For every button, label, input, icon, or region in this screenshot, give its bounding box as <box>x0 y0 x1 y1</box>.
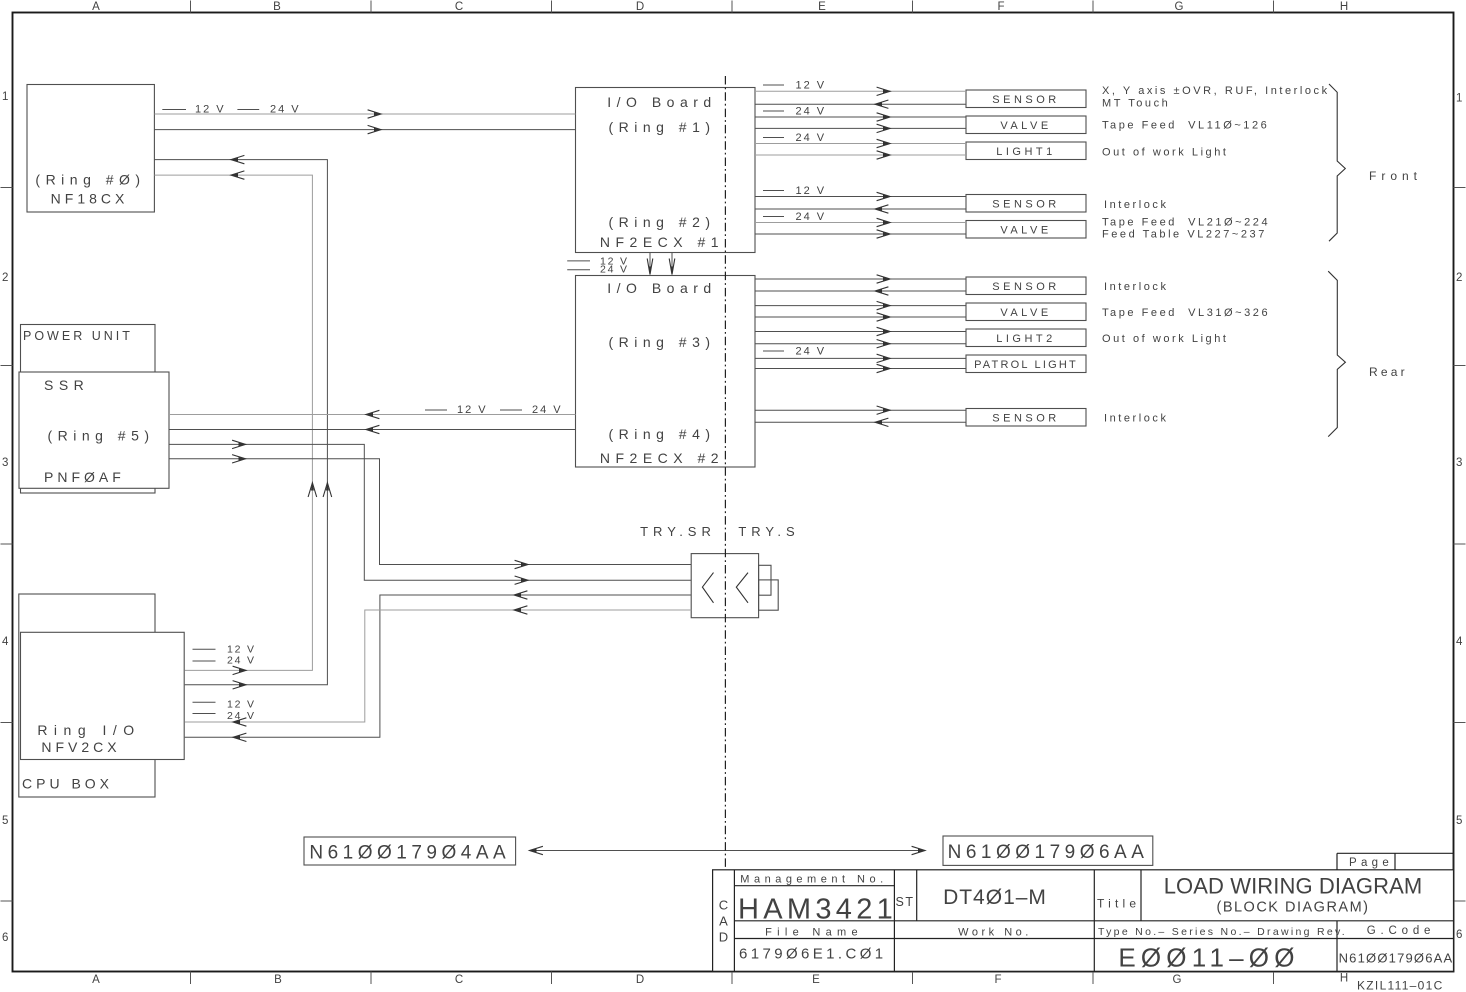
label 12 V (Ring I/O upper group) <box>193 648 216 650</box>
svg-text:EØØ11–ØØ: EØØ11–ØØ <box>1118 943 1299 973</box>
double-headed arrow between part numbers <box>530 850 926 852</box>
box SENSOR 3 <box>966 277 1086 295</box>
wire to PATROL LIGHT (bottom) <box>755 368 966 370</box>
wire to SENSOR2 (out) <box>755 196 966 198</box>
svg-text:C: C <box>455 974 463 986</box>
svg-text:24 V: 24 V <box>796 132 827 144</box>
title block Page strip <box>1337 852 1454 854</box>
wire to LIGHT2 (bottom) <box>755 343 966 345</box>
svg-text:TRY.S: TRY.S <box>738 524 799 539</box>
wire from SENSOR1 (return) <box>755 103 966 105</box>
svg-text:(Ring #2): (Ring #2) <box>608 214 715 230</box>
svg-text:N61ØØ179Ø4AA: N61ØØ179Ø4AA <box>309 843 510 864</box>
svg-text:H: H <box>1340 973 1348 985</box>
svg-text:Tape Feed VL21Ø~224: Tape Feed VL21Ø~224 <box>1102 217 1270 229</box>
svg-text:5: 5 <box>2 815 8 827</box>
svg-text:1: 1 <box>1456 93 1462 105</box>
svg-text:24 V: 24 V <box>796 346 827 358</box>
box LIGHT2 <box>966 329 1086 347</box>
box part number N610017906AA <box>943 836 1153 865</box>
block CPU BOX <box>19 594 155 797</box>
svg-text:SENSOR: SENSOR <box>992 94 1059 106</box>
wire return to NF18CX (upper) with vertical from Ring I/O <box>154 160 327 685</box>
wire to LIGHT1 (bottom) <box>755 154 966 156</box>
wire TRY.SR return upper to Ring I/O (wire D) <box>185 595 692 737</box>
label 12 V (NF18CX out) <box>162 109 186 111</box>
svg-text:Out of work Light: Out of work Light <box>1102 147 1229 159</box>
wire SSR out lower to TRY.SR (wire1) <box>169 459 691 565</box>
title block verticals <box>733 870 735 972</box>
wire NF18CX 24V out to I/O Board #1 <box>154 129 575 131</box>
block SSR (Ring #5) PNF0AF <box>19 372 169 488</box>
svg-text:(Ring #4): (Ring #4) <box>608 426 715 442</box>
box PATROL LIGHT <box>966 355 1086 373</box>
brace Rear <box>1328 271 1345 436</box>
wire to VALVE1 (top) <box>755 116 966 118</box>
wire from SENSOR2 (return) <box>755 208 966 210</box>
svg-text:SENSOR: SENSOR <box>992 198 1059 210</box>
label 12 V (SSR feed) <box>425 409 447 411</box>
block I/O Board NF2ECX #2 <box>576 276 756 468</box>
label 24 V (Ring I/O lower group) <box>193 713 216 715</box>
label 24 V (Ring I/O upper group) <box>193 660 216 662</box>
annotation group1 sensor line1 <box>1102 85 1330 424</box>
label 24 V (group2 valve) <box>763 216 784 218</box>
svg-text:NF2ECX #1: NF2ECX #1 <box>600 234 724 250</box>
wire SSR 24V from I/O Board #2 <box>169 429 576 431</box>
svg-text:PNFØAF: PNFØAF <box>44 469 125 485</box>
svg-text:E: E <box>812 974 820 986</box>
wire to PATROL LIGHT (top) <box>755 357 966 359</box>
svg-text:I/O Board: I/O Board <box>607 280 716 296</box>
svg-text:X, Y axis ±OVR, RUF, Interlock: X, Y axis ±OVR, RUF, Interlock <box>1102 85 1330 97</box>
svg-text:Out of work Light: Out of work Light <box>1102 333 1229 345</box>
svg-text:D: D <box>636 974 644 986</box>
svg-text:LIGHT2: LIGHT2 <box>996 333 1056 345</box>
svg-text:12 V: 12 V <box>457 404 488 416</box>
svg-text:B: B <box>274 974 282 986</box>
svg-text:Interlock: Interlock <box>1104 199 1169 211</box>
svg-text:12 V: 12 V <box>796 80 827 92</box>
frame row ticks left <box>1 188 13 902</box>
connector tab lower <box>759 580 779 610</box>
svg-text:B: B <box>273 1 281 13</box>
svg-text:Interlock: Interlock <box>1104 281 1169 293</box>
svg-text:SENSOR: SENSOR <box>992 281 1059 293</box>
svg-text:Work No.: Work No. <box>958 927 1032 939</box>
svg-text:VALVE: VALVE <box>1000 307 1051 319</box>
svg-text:1: 1 <box>2 91 8 103</box>
inter-board 24V label with double dash <box>567 269 590 271</box>
block NF18CX (Ring #0) <box>27 85 154 213</box>
svg-text:(Ring #3): (Ring #3) <box>608 334 715 350</box>
svg-text:HAM3421: HAM3421 <box>738 894 897 926</box>
svg-text:NF18CX: NF18CX <box>51 191 129 207</box>
svg-text:24 V: 24 V <box>532 404 563 416</box>
svg-text:Tape Feed VL11Ø~126: Tape Feed VL11Ø~126 <box>1102 120 1269 132</box>
svg-text:G.Code: G.Code <box>1367 925 1435 937</box>
frame row ticks right <box>1454 188 1466 902</box>
label 24 V (group3 patrol light) <box>763 350 784 352</box>
wire SSR out upper to TRY.SR (wire2) <box>169 444 691 580</box>
svg-text:VALVE: VALVE <box>1000 224 1051 236</box>
wire from SENSOR4 (return) <box>755 421 966 423</box>
svg-text:C: C <box>719 898 728 913</box>
connector TRY.SR / TRY.S <box>691 554 758 618</box>
svg-text:Interlock: Interlock <box>1104 412 1169 424</box>
box VALVE 3 <box>966 303 1086 321</box>
svg-text:4: 4 <box>2 636 9 648</box>
svg-text:24 V: 24 V <box>270 104 301 116</box>
svg-text:24 V: 24 V <box>600 264 629 276</box>
svg-text:Page: Page <box>1349 857 1393 869</box>
box SENSOR 2 <box>966 195 1086 213</box>
vertical centerline <box>724 76 726 870</box>
svg-text:3: 3 <box>2 457 8 469</box>
box VALVE 1 <box>966 116 1086 134</box>
svg-text:D: D <box>719 930 728 945</box>
svg-text:12 V: 12 V <box>195 104 226 116</box>
svg-text:MT Touch: MT Touch <box>1102 98 1170 110</box>
label 12 V (Ring I/O lower group) <box>193 701 216 703</box>
label 24 V (group1 valve) <box>763 110 784 112</box>
svg-text:24 V: 24 V <box>796 211 827 223</box>
svg-text:NF2ECX #2: NF2ECX #2 <box>600 450 724 466</box>
box VALVE 2 <box>966 221 1086 239</box>
inter-board down arrow 2 <box>671 253 673 274</box>
frame column ticks top <box>191 1 1274 13</box>
svg-text:LOAD WIRING DIAGRAM: LOAD WIRING DIAGRAM <box>1164 874 1423 899</box>
box LIGHT1 <box>966 142 1086 160</box>
svg-text:(BLOCK DIAGRAM): (BLOCK DIAGRAM) <box>1216 900 1369 916</box>
svg-text:D: D <box>636 1 644 13</box>
svg-text:G: G <box>1175 1 1184 13</box>
svg-text:24 V: 24 V <box>227 655 256 667</box>
svg-text:3: 3 <box>1456 457 1462 469</box>
label 12 V (group2 sensor) <box>763 190 784 192</box>
wire TRY.SR return lower to Ring I/O (wire C) <box>185 610 692 722</box>
svg-text:Ring I/O: Ring I/O <box>37 722 140 738</box>
wire to LIGHT2 (top) <box>755 331 966 333</box>
svg-text:PATROL LIGHT: PATROL LIGHT <box>974 359 1078 371</box>
connector chevron right <box>736 573 748 603</box>
svg-text:A: A <box>92 1 100 13</box>
block I/O Board NF2ECX #1 <box>576 88 756 253</box>
box part number N610017904AA <box>304 837 516 865</box>
svg-text:VALVE: VALVE <box>1000 120 1051 132</box>
svg-text:G: G <box>1173 974 1182 986</box>
svg-text:(Ring #1): (Ring #1) <box>608 119 715 135</box>
wire to LIGHT1 (top) <box>755 143 966 145</box>
frame column letters top <box>92 1 1348 13</box>
block Ring I/O NFV2CX <box>21 632 185 759</box>
up arrow on vertical x312 <box>308 483 317 497</box>
wire return to NF18CX (lower) with vertical from Ring I/O <box>154 175 312 670</box>
svg-text:CPU BOX: CPU BOX <box>22 776 113 792</box>
svg-text:6: 6 <box>1456 929 1462 941</box>
svg-text:6: 6 <box>2 932 8 944</box>
svg-text:E: E <box>818 1 826 13</box>
svg-text:ST: ST <box>896 895 915 909</box>
wire SSR 12V from I/O Board #2 <box>169 414 576 416</box>
wire to VALVE2 (bottom) <box>755 233 966 235</box>
svg-text:4: 4 <box>1456 636 1463 648</box>
inter-board down arrow 1 <box>649 253 651 274</box>
svg-text:2: 2 <box>1456 272 1462 284</box>
svg-text:12 V: 12 V <box>796 185 827 197</box>
box SENSOR 1 <box>966 90 1086 108</box>
label 12 V (group1 sensor) <box>763 84 784 86</box>
svg-text:2: 2 <box>2 272 8 284</box>
svg-text:12 V: 12 V <box>227 699 256 711</box>
svg-text:SENSOR: SENSOR <box>992 412 1059 424</box>
brace Front <box>1329 84 1345 241</box>
wire to SENSOR3 (out) <box>755 278 966 280</box>
connector tab upper <box>759 565 771 595</box>
svg-text:Front: Front <box>1369 169 1422 183</box>
frame row numbers right <box>1456 93 1463 942</box>
box SENSOR 4 <box>966 409 1086 427</box>
svg-text:A: A <box>719 914 728 929</box>
svg-text:Title: Title <box>1097 897 1140 911</box>
svg-text:F: F <box>997 1 1004 13</box>
wire to SENSOR1 (out) <box>755 90 966 92</box>
frame row numbers left <box>2 91 9 944</box>
svg-text:6179Ø6E1.CØ1: 6179Ø6E1.CØ1 <box>739 946 887 963</box>
svg-text:N61ØØ179Ø6AA: N61ØØ179Ø6AA <box>1339 951 1454 966</box>
wire to SENSOR4 (out) <box>755 409 966 411</box>
svg-text:Management No.: Management No. <box>740 874 887 886</box>
svg-text:(Ring #Ø): (Ring #Ø) <box>35 172 145 188</box>
svg-text:24 V: 24 V <box>227 710 256 722</box>
svg-text:Feed Table VL227~237: Feed Table VL227~237 <box>1102 229 1267 241</box>
connector chevron left <box>702 573 713 603</box>
label 24 V (NF18CX out) <box>237 109 259 111</box>
wire to VALVE3 (bottom) <box>755 316 966 318</box>
title block horizontals <box>734 885 894 887</box>
frame column letters bottom <box>92 973 1348 987</box>
svg-text:N61ØØ179Ø6AA: N61ØØ179Ø6AA <box>948 842 1149 863</box>
label 24 V (group1 light) <box>763 137 784 139</box>
svg-text:TRY.SR: TRY.SR <box>640 524 716 539</box>
svg-text:POWER UNIT: POWER UNIT <box>23 329 133 343</box>
svg-text:SSR: SSR <box>44 377 89 393</box>
block POWER UNIT <box>21 325 156 494</box>
svg-text:Rear: Rear <box>1369 365 1408 379</box>
svg-text:H: H <box>1340 1 1348 13</box>
svg-text:(Ring #5): (Ring #5) <box>47 428 154 444</box>
svg-text:C: C <box>455 1 463 13</box>
svg-text:KZIL111–01C: KZIL111–01C <box>1357 979 1444 992</box>
svg-text:F: F <box>994 974 1001 986</box>
svg-text:NFV2CX: NFV2CX <box>41 739 120 755</box>
label 24 V (SSR feed) <box>500 409 522 411</box>
wire NF18CX 12V out to I/O Board #1 <box>154 113 575 115</box>
wire to VALVE3 (top) <box>755 305 966 307</box>
svg-text:File Name: File Name <box>765 927 863 939</box>
svg-text:LIGHT1: LIGHT1 <box>996 146 1056 158</box>
svg-text:Type No.– Series No.– Drawing: Type No.– Series No.– Drawing Rev. <box>1098 926 1347 938</box>
title block outer <box>713 870 1454 972</box>
svg-text:DT4Ø1–M: DT4Ø1–M <box>943 886 1047 909</box>
svg-text:5: 5 <box>1456 815 1462 827</box>
wire to VALVE1 (bottom) <box>755 127 966 129</box>
up arrow on vertical x327 <box>323 483 332 497</box>
svg-text:I/O Board: I/O Board <box>607 94 716 110</box>
inter-board 12V label with double dash <box>567 260 590 262</box>
frame column ticks bottom <box>191 972 1274 985</box>
wire from SENSOR3 (return) <box>755 290 966 292</box>
svg-text:24 V: 24 V <box>796 106 827 118</box>
svg-text:Tape Feed VL31Ø~326: Tape Feed VL31Ø~326 <box>1102 307 1270 319</box>
svg-text:A: A <box>92 974 100 986</box>
wire to VALVE2 (top) <box>755 222 966 224</box>
